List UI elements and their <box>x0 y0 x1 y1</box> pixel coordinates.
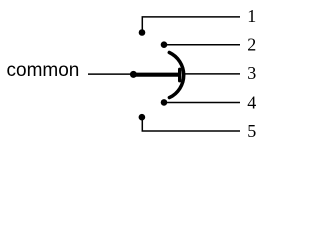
switch SW wiper arm (thick) <box>134 73 180 77</box>
node: contact dot position 1 <box>139 29 146 36</box>
wire: terminal 4 <box>165 102 240 104</box>
wire: terminal 5 (bend down + horizontal) <box>142 120 240 131</box>
switch SW wiper travel arc <box>169 53 183 98</box>
svg-text:3: 3 <box>247 63 256 83</box>
svg-text:4: 4 <box>247 93 256 113</box>
node: contact dot position 2 <box>161 41 168 48</box>
node: common junction dot <box>130 71 137 78</box>
wire: terminal 1 (horizontal + bend down) <box>142 17 240 30</box>
svg-text:5: 5 <box>247 121 256 141</box>
svg-text:1: 1 <box>247 6 256 26</box>
svg-text:2: 2 <box>247 34 256 54</box>
wire: terminal 2 <box>165 44 240 46</box>
switch SW wiper contact T-bar <box>178 69 181 80</box>
node: contact dot position 4 <box>161 99 168 106</box>
svg-text:common: common <box>7 60 80 81</box>
node: contact dot position 5 <box>139 114 146 121</box>
wire: common lead <box>88 73 134 75</box>
wire: terminal 3 (selected) <box>184 73 241 75</box>
